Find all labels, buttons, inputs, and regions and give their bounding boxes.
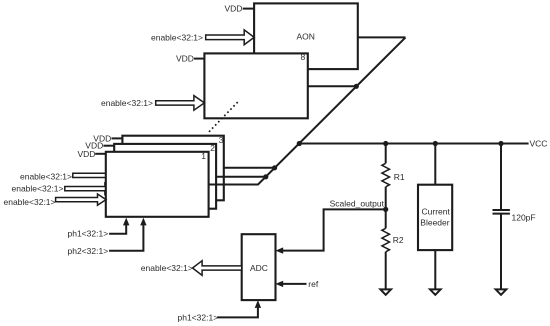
resistor R2 <box>382 209 404 289</box>
svg-text:ref: ref <box>308 279 319 289</box>
VDD net (AON) <box>225 4 255 14</box>
capacitor 120pF <box>493 144 536 290</box>
block 2 <box>114 143 216 209</box>
svg-text:VDD: VDD <box>225 4 243 14</box>
wire block 2 output <box>216 176 266 178</box>
svg-text:enable<32:1>: enable<32:1> <box>4 197 56 207</box>
VDD net (block 3) <box>93 133 122 143</box>
ground (current bleeder) <box>430 289 441 294</box>
enable<32:1> bus arrow into block 8 <box>101 96 204 111</box>
junction on diagonal (block 8 tap) <box>354 84 359 89</box>
current bleeder block <box>418 144 452 290</box>
junction on diagonal (block 3 tap) <box>272 165 277 170</box>
wire block 3 output <box>224 167 275 169</box>
ground (capacitor) <box>496 289 507 294</box>
svg-text:VDD: VDD <box>176 54 194 64</box>
ground (R2) <box>380 289 391 294</box>
svg-text:AON: AON <box>297 32 315 42</box>
VDD net (block 8) <box>176 54 204 64</box>
svg-text:Bleeder: Bleeder <box>420 217 449 227</box>
junction VCC/capacitor <box>498 141 503 146</box>
VDD net (block 2) <box>85 141 114 151</box>
wire AON output <box>358 36 406 38</box>
dotted continuation line <box>209 102 238 132</box>
enable<32:1> bus arrow into block 3 (hidden head) <box>20 170 123 182</box>
enable<32:1> bus arrow into block 1 <box>4 194 107 207</box>
svg-text:VCC: VCC <box>530 139 548 149</box>
block AON <box>254 3 358 69</box>
svg-text:120pF: 120pF <box>512 213 536 223</box>
svg-text:2: 2 <box>210 143 215 153</box>
ref net into ADC <box>275 279 318 289</box>
svg-text:R2: R2 <box>393 235 404 245</box>
enable<32:1> bus arrow into AON <box>151 30 254 45</box>
junction VCC/R1 <box>383 141 388 146</box>
svg-text:R1: R1 <box>394 172 405 182</box>
svg-text:ph1<32:1>: ph1<32:1> <box>68 229 109 239</box>
junction VCC/current bleeder <box>433 141 438 146</box>
enable<32:1> bus arrow out of ADC <box>141 261 242 276</box>
svg-text:enable<32:1>: enable<32:1> <box>12 184 64 194</box>
svg-text:enable<32:1>: enable<32:1> <box>101 98 153 108</box>
junction on diagonal (block 2 tap) <box>263 174 268 179</box>
node Scaled_output <box>330 198 389 212</box>
VDD net (block 1) <box>78 149 106 159</box>
wire Scaled_output to ADC <box>275 209 385 253</box>
svg-text:Scaled_output: Scaled_output <box>330 198 385 208</box>
junction diagonal/VCC rail <box>297 141 302 146</box>
ph2<32:1> net into block 1 <box>68 218 147 256</box>
block 3 <box>122 135 223 200</box>
svg-text:enable<32:1>: enable<32:1> <box>151 32 203 42</box>
wire block 1 output + diagonal bus to AON output <box>209 37 406 184</box>
wire block-8 output <box>308 85 357 87</box>
svg-text:VDD: VDD <box>78 149 96 159</box>
svg-text:enable<32:1>: enable<32:1> <box>20 171 72 181</box>
resistor R1 <box>382 144 405 210</box>
ph1<32:1> net into block 1 <box>68 218 130 239</box>
svg-text:ph1<32:1>: ph1<32:1> <box>178 312 219 322</box>
net VCC rail <box>299 139 547 149</box>
block 8 <box>204 52 307 118</box>
svg-text:enable<32:1>: enable<32:1> <box>141 263 193 273</box>
svg-text:1: 1 <box>201 151 206 161</box>
enable<32:1> bus arrow into block 2 (head mostly hidden) <box>12 183 115 194</box>
svg-text:Current: Current <box>422 206 451 216</box>
svg-text:3: 3 <box>219 135 224 145</box>
ph1<32:1> net into ADC <box>178 300 262 322</box>
svg-text:ph2<32:1>: ph2<32:1> <box>68 246 109 256</box>
block ADC <box>242 234 276 300</box>
svg-text:ADC: ADC <box>250 263 268 273</box>
block 1 <box>106 151 209 217</box>
svg-text:8: 8 <box>301 52 306 62</box>
